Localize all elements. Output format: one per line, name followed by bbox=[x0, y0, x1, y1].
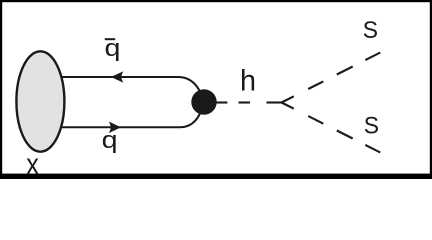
frame top border bbox=[0, 0, 432, 2]
higgs propagator h dash 2 bbox=[239, 101, 251, 103]
scalar S line upper dash 4 bbox=[365, 53, 380, 61]
scalar S line upper dash 2 bbox=[308, 81, 323, 89]
higgs propagator h dash 3 bbox=[267, 101, 282, 103]
label qbar: overbar bbox=[105, 38, 115, 40]
svg-text:S: S bbox=[364, 112, 379, 139]
scalar S line upper dash 1 (fork arm) bbox=[282, 96, 294, 102]
svg-text:S: S bbox=[363, 17, 378, 44]
arrow on qbar (pointing left) bbox=[112, 72, 122, 81]
scalar S line lower dash 1 (fork arm) bbox=[282, 103, 294, 109]
scalar S line upper dash 3 bbox=[337, 67, 353, 75]
scalar S line lower dash 4 bbox=[365, 145, 380, 153]
antiquark line qbar bbox=[62, 77, 205, 102]
svg-text:h: h bbox=[240, 64, 256, 98]
frame left border bbox=[0, 0, 2, 179]
vertex dot bbox=[191, 89, 216, 114]
frame right border bbox=[430, 0, 432, 179]
frame bottom border bbox=[0, 174, 432, 179]
svg-text:x: x bbox=[26, 147, 39, 179]
blob X (hadron ellipse) bbox=[16, 51, 64, 151]
svg-text:q: q bbox=[102, 126, 118, 153]
higgs propagator h (dashed): dash 1 from vertex dot bbox=[215, 101, 227, 103]
quark line q bbox=[62, 102, 205, 127]
scalar S line lower dash 3 bbox=[337, 131, 353, 139]
scalar S line lower dash 2 bbox=[308, 116, 323, 124]
arrow on q (pointing right) bbox=[110, 123, 120, 132]
